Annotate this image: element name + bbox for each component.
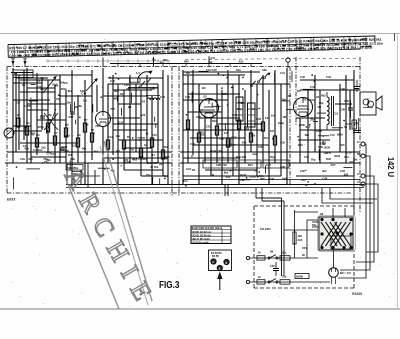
trimmer arrow T1 (43, 76, 57, 93)
svg-text:82k: 82k (46, 158, 51, 162)
bus line y187 (66, 187, 364, 189)
resistor R25 (249, 133, 252, 142)
svg-text:C48: C48 (322, 176, 327, 180)
svg-text:R4: R4 (192, 168, 196, 172)
mains wire bottom (246, 280, 330, 283)
svg-text:R19 2k2: R19 2k2 (236, 155, 247, 159)
wire x284 (283, 201, 285, 276)
svg-text:220p: 220p (325, 150, 331, 154)
svg-text:B1: B1 (128, 105, 132, 109)
lower left connector boxes (66, 163, 100, 188)
svg-text:10n: 10n (164, 157, 169, 161)
section divider A1 (171, 67, 173, 197)
resistor R27 (273, 136, 276, 145)
tube socket diagram (209, 250, 232, 271)
svg-text:C13: C13 (160, 95, 165, 99)
fuse F2 (257, 280, 265, 284)
svg-text:S2: S2 (203, 94, 207, 98)
svg-text:82k: 82k (220, 136, 225, 140)
resistor R11 (139, 148, 142, 157)
svg-text:S18: S18 (196, 115, 201, 119)
svg-text:C57: C57 (270, 264, 275, 268)
svg-text:C15: C15 (152, 133, 157, 137)
svg-text:osc: osc (40, 88, 45, 91)
AVC bus above border (110, 64, 262, 67)
svg-text:S1: S1 (22, 83, 26, 87)
page top edge line (0, 33, 400, 35)
svg-text:1-5: 1-5 (136, 71, 140, 75)
chassis border bottom (7, 192, 352, 194)
svg-text:8k2: 8k2 (68, 89, 73, 93)
sec4 labels (297, 75, 349, 173)
chassis border left (6, 67, 8, 194)
svg-text:56k: 56k (77, 104, 82, 108)
svg-text:C48: C48 (81, 92, 86, 96)
resistor R14 (106, 140, 109, 149)
capacitor C61 (355, 80, 360, 92)
valve table (191, 226, 231, 244)
svg-text:R17: R17 (306, 125, 311, 129)
svg-text:C38: C38 (280, 165, 285, 169)
svg-text:C27: C27 (46, 151, 51, 155)
resistor R21 (197, 133, 200, 142)
resistor R22 (215, 126, 218, 135)
svg-text:30: 30 (200, 108, 203, 112)
svg-text:Ra: Ra (186, 71, 190, 75)
svg-text:110-245V: 110-245V (260, 228, 271, 231)
antenna terminal arrow (11, 59, 15, 67)
pwr labels (258, 224, 317, 279)
svg-text:465: 465 (124, 158, 129, 162)
svg-text:C42: C42 (300, 75, 305, 79)
capacitor C60 (348, 100, 353, 118)
svg-text:1k: 1k (145, 132, 148, 136)
rectifier tube B6 (329, 250, 351, 284)
svg-text:56k: 56k (259, 174, 264, 178)
svg-text:47p: 47p (226, 175, 231, 179)
svg-text:25p: 25p (146, 173, 151, 177)
svg-text:2k2: 2k2 (208, 61, 213, 64)
section3 wires (180, 68, 290, 184)
IF transformer T2 (248, 103, 256, 127)
svg-text:C7: C7 (54, 131, 58, 135)
svg-text:0k39: 0k39 (337, 132, 343, 136)
strip connector stubs (103, 56, 209, 66)
svg-text:0k39 C26: 0k39 C26 (210, 149, 222, 153)
svg-text:50p: 50p (238, 101, 243, 105)
svg-text:R7: R7 (84, 118, 88, 122)
oscillator coil (146, 96, 160, 101)
resistor R4 (46, 123, 49, 132)
svg-text:S1a: S1a (282, 252, 287, 255)
svg-text:B5: B5 (297, 89, 301, 93)
tube B2 (200, 99, 219, 118)
wire y220 (307, 219, 318, 221)
speaker frame (360, 92, 376, 115)
left labels (14, 72, 94, 164)
svg-text:1000: 1000 (316, 129, 322, 133)
fuse F1 (257, 256, 265, 260)
svg-text:C43: C43 (326, 75, 331, 79)
svg-text:50p: 50p (242, 140, 247, 144)
svg-text:2k: 2k (17, 113, 20, 117)
svg-text:S2: S2 (288, 94, 292, 98)
svg-text:FIG.3: FIG.3 (159, 280, 180, 291)
svg-text:0k39: 0k39 (324, 146, 330, 150)
svg-text:0k1: 0k1 (209, 98, 214, 102)
svg-text:220p: 220p (278, 121, 284, 125)
bus line y184 (66, 184, 364, 186)
svg-text:R1919: R1919 (352, 292, 362, 296)
svg-text:50p: 50p (311, 157, 316, 161)
power box dashed border (254, 206, 354, 288)
svg-text:B3: B3 (202, 86, 206, 90)
svg-text:0k5: 0k5 (340, 143, 345, 147)
terminal labels (357, 140, 360, 184)
tube B3 output (294, 98, 313, 117)
antenna coil circle (4, 128, 14, 138)
svg-text:1k5: 1k5 (298, 234, 303, 238)
svg-text:C27: C27 (265, 116, 270, 120)
svg-text:C50: C50 (304, 155, 309, 159)
svg-text:B1-B6 SER HEATER 100mA: B1-B6 SER HEATER 100mA (192, 227, 223, 230)
resistor R3 (35, 138, 38, 147)
svg-text:S2: S2 (142, 100, 146, 104)
svg-text:C100: C100 (24, 104, 31, 108)
svg-text:C2b: C2b (70, 157, 75, 161)
svg-text:56k: 56k (82, 146, 87, 150)
svg-text:25n: 25n (130, 148, 135, 152)
section divider B2 (295, 57, 297, 125)
svg-text:C51: C51 (344, 155, 349, 159)
svg-text:50p: 50p (319, 101, 324, 105)
capacitor C57 (270, 262, 279, 276)
svg-text:C54: C54 (302, 247, 307, 250)
svg-text:R4: R4 (151, 153, 155, 157)
svg-text:C10: C10 (346, 151, 351, 155)
switch bus heavy (128, 87, 158, 89)
svg-text:C12: C12 (110, 79, 115, 83)
scan grain (4, 39, 396, 306)
svg-text:S2: S2 (320, 212, 324, 216)
svg-text:465: 465 (68, 153, 73, 157)
bus line y179 (183, 179, 360, 181)
svg-text:220p: 220p (38, 125, 44, 129)
svg-text:8k2: 8k2 (224, 171, 229, 175)
svg-text:C27: C27 (118, 121, 123, 125)
svg-text:C24: C24 (186, 167, 191, 171)
wire y212 (295, 211, 319, 213)
svg-text:82k: 82k (114, 89, 119, 93)
svg-text:R17: R17 (231, 135, 236, 139)
svg-text:10n: 10n (38, 148, 43, 152)
svg-text:0k1: 0k1 (116, 149, 121, 153)
svg-text:C11: C11 (108, 135, 113, 139)
svg-text:10n: 10n (199, 130, 204, 134)
resistor R10 (122, 140, 125, 149)
watermark archive stamp (59, 141, 163, 314)
bus line y163 (5, 162, 172, 164)
mid section wires (103, 68, 168, 184)
svg-text:C35: C35 (280, 141, 285, 145)
svg-text:C27: C27 (23, 144, 28, 148)
bottom right component cluster (345, 118, 361, 133)
wire y230 (284, 229, 318, 231)
svg-text:1k: 1k (144, 143, 147, 147)
terminal circle top (286, 58, 290, 62)
mid labels (104, 71, 168, 177)
svg-text:8k2: 8k2 (321, 93, 326, 97)
svg-text:0k39: 0k39 (61, 145, 67, 149)
mains wire top (246, 256, 318, 259)
IF transformer T1 (236, 97, 243, 121)
svg-text:C33: C33 (256, 117, 261, 121)
svg-text:AK2: AK2 (140, 113, 146, 117)
capacitor C3 (70, 111, 75, 113)
svg-text:4k 56k: 4k 56k (150, 165, 159, 169)
svg-text:kc/s: kc/s (252, 107, 258, 111)
svg-text:10n: 10n (231, 143, 236, 147)
svg-text:S2a: S2a (312, 224, 317, 227)
resistor R20 (186, 120, 189, 129)
svg-text:30: 30 (254, 169, 257, 173)
svg-text:C48: C48 (340, 107, 345, 111)
svg-text:C27a: C27a (222, 92, 229, 96)
resistor R7 (76, 138, 79, 147)
svg-text:C22: C22 (190, 142, 195, 146)
stamp border right outer (104, 141, 152, 301)
stamp border left (66, 180, 119, 309)
svg-text:5p: 5p (344, 125, 347, 129)
svg-text:0k39: 0k39 (240, 173, 246, 177)
choke box top (280, 256, 290, 260)
capacitor C1 (40, 115, 45, 117)
svg-text:C10: C10 (333, 112, 338, 116)
resistor R9 (90, 133, 93, 142)
svg-text:390: 390 (344, 172, 349, 176)
resistor R5 (53, 136, 56, 145)
svg-text:220p: 220p (320, 141, 326, 145)
resistor R1 (17, 118, 20, 127)
svg-text:82k: 82k (305, 133, 310, 137)
svg-text:82k: 82k (251, 134, 256, 138)
tuning gang X (44, 109, 58, 134)
wire x307 (306, 220, 308, 258)
svg-text:390: 390 (126, 87, 131, 91)
svg-text:S3a: S3a (236, 68, 241, 72)
svg-text:B6 = CU: B6 = CU (340, 271, 351, 275)
terminal circles right (361, 142, 365, 186)
aerial input box (13, 70, 33, 78)
svg-text:R21: R21 (248, 163, 253, 167)
svg-text:50p: 50p (270, 155, 275, 159)
sec3 labels (185, 68, 285, 171)
svg-text:UY1N B6 gelijkr: UY1N B6 gelijkr (192, 242, 209, 244)
parts list strip (8, 35, 383, 58)
svg-text:B4 B5: B4 B5 (212, 255, 219, 258)
speaker transformer (363, 98, 374, 108)
resistor R6 (64, 128, 67, 137)
wire stubs (14, 71, 353, 189)
svg-text:220p: 220p (250, 175, 256, 179)
page bottom edge line (0, 308, 400, 310)
wire x281 (281, 198, 283, 276)
svg-text:UCH21 B1 B2 osc: UCH21 B1 B2 osc (192, 232, 212, 234)
svg-text:10n: 10n (310, 98, 315, 102)
svg-text:50: 50 (91, 128, 94, 132)
svg-text:R16: R16 (212, 119, 217, 123)
svg-text:C41: C41 (280, 71, 285, 75)
svg-text:R9: R9 (127, 135, 131, 139)
svg-text:1k: 1k (159, 162, 162, 166)
svg-text:R32: R32 (326, 157, 331, 161)
svg-text:50/5W: 50/5W (296, 275, 304, 278)
svg-text:E833: E833 (7, 198, 15, 202)
svg-text:5p6: 5p6 (282, 177, 287, 181)
resistor R8 (83, 123, 86, 132)
svg-text:R17: R17 (331, 163, 336, 167)
capacitor C2 (60, 147, 65, 149)
svg-text:S4: S4 (316, 95, 320, 99)
stamp border right inner (100, 146, 148, 305)
earth terminal arrow (23, 59, 27, 67)
svg-text:R12: R12 (163, 145, 168, 149)
svg-text:UCH21 B3 B4 det: UCH21 B3 B4 det (192, 234, 211, 237)
resistor 50W (295, 274, 309, 279)
coil trimmer arrow (86, 78, 98, 91)
svg-text:25n: 25n (95, 124, 100, 128)
svg-text:C4: C4 (26, 121, 30, 125)
svg-text:R12: R12 (239, 61, 244, 64)
svg-text:R31: R31 (298, 143, 303, 147)
svg-text:C6: C6 (56, 97, 60, 101)
svg-text:C10: C10 (210, 57, 215, 60)
section4 wires (290, 70, 360, 176)
chassis border right (359, 57, 361, 212)
svg-text:142 U: 142 U (386, 157, 396, 177)
svg-text:R17: R17 (303, 97, 308, 101)
socket arrow (217, 272, 222, 291)
output transformer S4 (327, 92, 334, 130)
svg-text:0k1: 0k1 (24, 126, 29, 130)
svg-text:UBL21 B5 eindb: UBL21 B5 eindb (192, 239, 210, 241)
svg-text:465: 465 (31, 132, 36, 136)
svg-text:5p6: 5p6 (164, 174, 169, 178)
svg-text:S2: S2 (120, 92, 124, 96)
svg-text:C2a: C2a (20, 157, 25, 161)
svg-text:4M7: 4M7 (152, 161, 158, 165)
svg-text:25n: 25n (264, 136, 269, 140)
speaker cone (376, 96, 382, 110)
svg-text:C10: C10 (206, 125, 211, 129)
svg-text:10n: 10n (64, 148, 69, 152)
page right edge line (397, 34, 399, 308)
svg-text:4M7: 4M7 (163, 59, 168, 62)
stamp letters (59, 164, 163, 314)
band switch rotary arc (128, 71, 158, 88)
svg-text:10n: 10n (271, 114, 276, 118)
svg-text:R17: R17 (69, 115, 74, 119)
svg-text:4M7: 4M7 (184, 60, 189, 63)
svg-text:0k1: 0k1 (133, 158, 138, 162)
svg-text:S1b: S1b (282, 276, 287, 279)
svg-text:S3b: S3b (262, 68, 267, 72)
svg-text:R12: R12 (350, 160, 355, 164)
svg-text:C30: C30 (232, 113, 237, 117)
svg-text:C44: C44 (310, 85, 315, 89)
resistor R26 (261, 122, 264, 131)
choke box bottom (280, 280, 290, 284)
svg-text:4M7: 4M7 (65, 134, 71, 138)
svg-text:10k: 10k (224, 131, 229, 135)
svg-text:C37: C37 (266, 163, 271, 167)
wires main to bottom (225, 185, 284, 201)
svg-text:3A5: 3A5 (298, 238, 303, 242)
svg-text:0k39: 0k39 (334, 154, 340, 158)
svg-text:C10: C10 (301, 178, 306, 182)
nested wires to power section (338, 144, 378, 278)
svg-text:C9: C9 (77, 133, 81, 137)
volume control box chain (203, 160, 289, 168)
svg-text:8k2: 8k2 (94, 150, 99, 154)
resistor R13 (161, 150, 164, 159)
svg-text:47p: 47p (152, 58, 157, 61)
resistor R23 (226, 138, 229, 147)
dropper resistor (293, 210, 303, 258)
svg-text:R5: R5 (65, 123, 69, 127)
IF switch diagonals (250, 72, 270, 87)
svg-text:4M7: 4M7 (113, 96, 119, 100)
switch label box (130, 78, 141, 82)
svg-text:C10: C10 (124, 83, 129, 87)
switch SK2 (268, 279, 278, 284)
strip tie marks (46, 58, 358, 62)
svg-text:C46: C46 (340, 87, 345, 91)
svg-text:10n: 10n (116, 134, 121, 138)
svg-text:C27: C27 (15, 101, 20, 105)
svg-text:C8: C8 (64, 81, 68, 85)
svg-text:4-5: 4-5 (40, 76, 44, 80)
left section wires (11, 68, 97, 184)
section divider A2 (178, 67, 180, 197)
svg-text:an: an (14, 72, 17, 75)
svg-text:SK: SK (270, 251, 274, 254)
svg-text:25n: 25n (310, 118, 315, 122)
bus line y152 (7, 151, 172, 153)
power transformer S2 body (318, 216, 356, 252)
svg-text:390: 390 (28, 157, 33, 161)
chassis border top (7, 66, 360, 68)
power transformer S2 (312, 208, 353, 250)
transformer inner winding box (331, 236, 351, 249)
resistor R12 (150, 138, 153, 147)
svg-text:50p: 50p (237, 107, 242, 111)
svg-text:R3: R3 (36, 133, 40, 137)
tube B1 (96, 112, 111, 127)
svg-text:C10: C10 (51, 152, 56, 156)
svg-text:R12: R12 (71, 143, 76, 147)
page right edge tick (394, 33, 396, 41)
svg-text:10n: 10n (67, 100, 72, 104)
svg-text:C47: C47 (330, 133, 335, 137)
long loop wires right (322, 188, 377, 203)
switch SK1 (268, 255, 278, 260)
svg-text:C35: C35 (258, 145, 263, 149)
svg-text:0k1: 0k1 (143, 157, 148, 161)
section divider B1 (289, 67, 291, 187)
svg-text:C48: C48 (185, 95, 190, 99)
svg-text:3k2: 3k2 (322, 169, 327, 173)
